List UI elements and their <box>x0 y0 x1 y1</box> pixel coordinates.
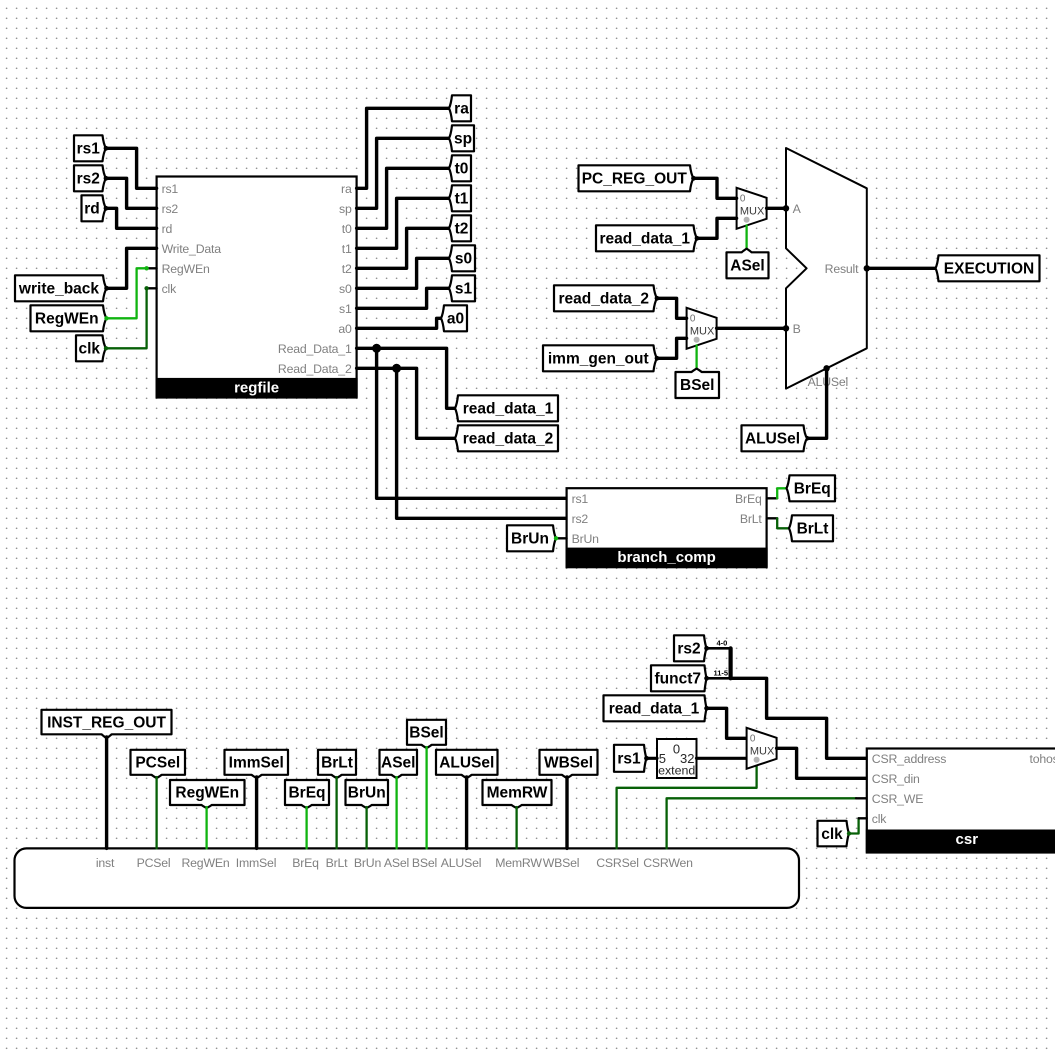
svg-text:WBSel: WBSel <box>543 856 580 870</box>
tunnel rs1 bottom <box>614 745 647 772</box>
tunnel BrEq <box>787 475 836 501</box>
node read_data_2 top tip <box>655 296 660 301</box>
svg-text:read_data_1: read_data_1 <box>609 701 700 718</box>
regfile pin label clk <box>162 282 177 296</box>
svg-text:BSel: BSel <box>409 725 443 742</box>
tunnel ASel <box>727 249 769 279</box>
regfile pin label rd <box>162 222 173 236</box>
svg-text:Read_Data_1: Read_Data_1 <box>278 342 352 356</box>
wire BSel pin <box>425 747 427 848</box>
node read_data_1 bottom tip <box>704 706 709 711</box>
node clk csr tip <box>847 831 851 835</box>
node RegWEn elbow <box>144 266 148 270</box>
svg-text:imm_gen_out: imm_gen_out <box>548 351 649 368</box>
svg-text:RegWEn: RegWEn <box>175 785 239 802</box>
regfile pin label rs2 <box>162 202 179 216</box>
branch_comp pin label BrLt <box>740 512 763 526</box>
svg-text:tohost: tohost <box>1029 752 1055 766</box>
tunnel BrUn bottom <box>346 780 389 808</box>
control pin label CSRWen <box>643 856 693 870</box>
wire s1 <box>357 288 449 308</box>
svg-text:a0: a0 <box>447 311 464 328</box>
svg-text:s1: s1 <box>455 281 473 298</box>
svg-text:s0: s0 <box>455 251 472 268</box>
svg-text:clk: clk <box>821 826 843 843</box>
tunnel ImmSel <box>225 750 289 778</box>
regfile pin label ra <box>341 182 352 196</box>
wire t2 <box>357 228 449 268</box>
node ALU B port <box>783 325 789 331</box>
wire mux3 out to CSR_din <box>777 748 867 778</box>
tunnel write_back <box>15 275 107 301</box>
control pin label MemRW <box>495 856 542 870</box>
tunnel funct7 <box>651 665 707 691</box>
node funct7 tip <box>704 676 709 681</box>
branch_comp pin label rs2 <box>572 512 589 526</box>
svg-text:csr: csr <box>956 831 979 848</box>
control pin label BrLt <box>326 856 349 870</box>
regfile pin label Read_Data_2 <box>278 362 352 376</box>
wire funct7 leg <box>707 677 731 680</box>
tunnel BrEq bottom <box>285 780 329 808</box>
svg-text:INST_REG_OUT: INST_REG_OUT <box>47 714 166 731</box>
svg-text:ALUSel: ALUSel <box>745 431 800 448</box>
svg-text:0: 0 <box>673 742 680 757</box>
regfile pin label t0 <box>342 222 352 236</box>
tunnel BrLt <box>789 515 833 541</box>
svg-text:t1: t1 <box>342 242 352 256</box>
wire a0 <box>357 318 441 328</box>
svg-text:branch_comp: branch_comp <box>617 549 715 566</box>
wire MemRW pin <box>515 807 517 848</box>
svg-text:CSR_din: CSR_din <box>872 772 920 786</box>
wire Read_Data_1 to branch_comp rs1 <box>377 348 567 498</box>
tunnel PCSel <box>131 750 186 778</box>
control pin label ImmSel <box>236 856 276 870</box>
regfile pin label s0 <box>339 282 352 296</box>
svg-text:BrEq: BrEq <box>735 492 762 506</box>
csr pin label clk <box>872 812 887 826</box>
node clk tip <box>104 346 108 350</box>
svg-text:t0: t0 <box>342 222 352 236</box>
svg-text:rs2: rs2 <box>572 512 589 526</box>
svg-text:CSRSel: CSRSel <box>596 856 639 870</box>
svg-text:a0: a0 <box>338 322 352 336</box>
tunnel read_data_1 mid <box>455 395 558 421</box>
wire BrLt dark green <box>777 518 789 528</box>
splitter S1 label 11-5 <box>714 669 729 678</box>
svg-text:rs1: rs1 <box>617 751 641 768</box>
svg-text:PCSel: PCSel <box>137 856 171 870</box>
wire BSel select <box>695 345 697 369</box>
tunnel RegWEn left <box>31 305 107 331</box>
tunnel s0 <box>449 245 475 271</box>
wire PC_REG_OUT to mux1 <box>694 178 737 198</box>
wire rs1 to regfile <box>106 148 157 188</box>
control pin label BrUn <box>354 856 382 870</box>
wire clk port stub <box>147 287 157 289</box>
tunnel s1 <box>449 275 475 301</box>
node imm_gen_out tip <box>655 356 660 361</box>
svg-text:ASel: ASel <box>730 258 764 275</box>
svg-text:BrEq: BrEq <box>288 785 325 802</box>
wire s0 <box>357 258 449 288</box>
node ALU A port <box>783 205 789 211</box>
regfile pin label sp <box>339 202 352 216</box>
svg-text:t1: t1 <box>455 191 469 208</box>
ALU label A <box>793 202 802 216</box>
wire write_back to Write_Data <box>107 248 157 288</box>
wire Read_Data_2 to branch_comp rs2 <box>397 368 567 518</box>
tunnel rs2 <box>74 165 106 191</box>
wire clk csr green <box>849 818 859 833</box>
svg-text:4-0: 4-0 <box>717 639 728 648</box>
svg-text:rs1: rs1 <box>162 182 179 196</box>
wire BrEq stub <box>767 497 778 499</box>
wire mux2 out to ALU B <box>717 327 786 330</box>
mux BSel MUX2 <box>687 308 717 349</box>
svg-text:ASel: ASel <box>384 856 409 870</box>
wire ASel pin <box>395 777 397 848</box>
wire t1 <box>357 198 449 248</box>
wire read_data_1 to mux3 <box>707 708 747 738</box>
svg-text:CSR_address: CSR_address <box>872 752 946 766</box>
svg-text:PCSel: PCSel <box>135 755 180 772</box>
svg-text:clk: clk <box>78 341 100 358</box>
regfile pin label t1 <box>342 242 352 256</box>
tunnel BrUn <box>507 525 556 551</box>
wire RegWEn pin <box>205 807 207 848</box>
tunnel RegWEn bottom <box>170 780 245 808</box>
node rs1 tip <box>104 146 109 151</box>
tunnel BrLt bottom <box>318 750 356 778</box>
tunnel ASel bottom <box>380 750 418 778</box>
tunnel rd <box>82 195 107 221</box>
tunnel t2 <box>449 215 471 241</box>
node PC_REG_OUT tip <box>691 176 696 181</box>
svg-text:BrLt: BrLt <box>326 856 349 870</box>
svg-text:BrUn: BrUn <box>348 785 386 802</box>
svg-text:Result: Result <box>825 262 859 276</box>
svg-text:RegWEn: RegWEn <box>162 262 210 276</box>
svg-text:0: 0 <box>750 734 756 745</box>
tunnel read_data_2 top <box>554 285 657 311</box>
wire BrLt stub <box>767 517 778 519</box>
tunnel rs1 <box>74 135 106 161</box>
wire mux1 out to ALU A <box>767 207 786 210</box>
svg-text:ra: ra <box>341 182 352 196</box>
svg-text:BSel: BSel <box>680 377 714 394</box>
svg-text:regfile: regfile <box>234 380 279 397</box>
svg-text:t2: t2 <box>342 262 352 276</box>
wire rs1 to extend <box>647 757 658 760</box>
svg-text:BrLt: BrLt <box>740 512 763 526</box>
wire inst pin <box>105 737 108 848</box>
tunnel read_data_2 mid <box>455 425 558 451</box>
control pin label CSRSel <box>596 856 639 870</box>
wire BrEq pin <box>305 807 307 848</box>
wire CSRSel pin <box>617 765 757 848</box>
splitter S1 spine <box>728 648 732 678</box>
wire CSR_address <box>731 678 867 758</box>
wire read_data_1 to mux1 <box>697 218 737 238</box>
tunnel ra <box>449 95 471 121</box>
node ALUSel port <box>823 365 829 371</box>
regfile pin label t2 <box>342 262 352 276</box>
regfile pin label Read_Data_1 <box>278 342 352 356</box>
svg-text:clk: clk <box>872 812 887 826</box>
wire ra <box>357 108 449 188</box>
wire rs2 leg <box>707 647 731 650</box>
svg-text:rs1: rs1 <box>77 141 101 158</box>
wire BrEq green <box>777 488 786 498</box>
control logic block <box>15 848 800 908</box>
svg-text:MemRW: MemRW <box>487 785 548 802</box>
branch_comp U2 body <box>566 488 768 567</box>
svg-text:ALUSel: ALUSel <box>441 856 482 870</box>
control pin label ASel <box>384 856 409 870</box>
node RegWEn tip <box>104 316 108 320</box>
wire WBSel pin <box>565 777 568 848</box>
csr pin label CSR_WE <box>872 792 923 806</box>
svg-text:s1: s1 <box>339 302 352 316</box>
wire CSRWen pin <box>667 798 856 848</box>
regfile pin label rs1 <box>162 182 179 196</box>
svg-text:CSRWen: CSRWen <box>643 856 693 870</box>
regfile pin label a0 <box>338 322 352 336</box>
svg-text:BrEq: BrEq <box>292 856 319 870</box>
svg-text:extend: extend <box>658 763 695 777</box>
wire CSR_WE stub <box>856 797 867 799</box>
svg-text:0: 0 <box>690 314 696 325</box>
control pin label PCSel <box>137 856 171 870</box>
tunnel read_data_1 bottom <box>604 695 707 721</box>
wire PCSel pin <box>155 777 157 848</box>
svg-text:ImmSel: ImmSel <box>236 856 276 870</box>
tunnel clk bottom <box>818 821 850 847</box>
tunnel INST_REG_OUT <box>42 710 172 739</box>
svg-text:Read_Data_2: Read_Data_2 <box>278 362 352 376</box>
tunnel read_data_1 top <box>596 225 697 251</box>
tunnel WBSel <box>540 750 598 778</box>
node rd tip <box>104 206 109 211</box>
tunnel EXECUTION <box>936 255 1040 281</box>
wire Read_Data_1 out <box>357 348 455 408</box>
node read_data_1 top tip <box>695 236 700 241</box>
svg-text:Write_Data: Write_Data <box>162 242 222 256</box>
tunnel BSel <box>676 369 720 398</box>
mux CSRSel MUX3 <box>747 728 777 769</box>
node rs2 tip <box>704 646 709 651</box>
tunnel t0 <box>449 155 471 181</box>
svg-text:MUX: MUX <box>740 206 765 218</box>
csr pin label CSR_address <box>872 752 946 766</box>
svg-text:ra: ra <box>454 101 469 118</box>
svg-text:MUX: MUX <box>690 326 715 338</box>
extend block U4 <box>657 739 697 778</box>
svg-text:BrUn: BrUn <box>511 531 549 548</box>
junction Read_Data_2 <box>392 364 401 373</box>
ALU label B <box>793 322 801 336</box>
wire BrUn stub <box>556 537 566 539</box>
tunnel rs2 bottom <box>674 635 707 661</box>
svg-text:EXECUTION: EXECUTION <box>944 261 1034 278</box>
wire ImmSel pin <box>255 777 258 848</box>
svg-text:rs2: rs2 <box>677 641 700 658</box>
svg-text:ALUSel: ALUSel <box>439 755 494 772</box>
wire ALUSel pin <box>465 777 468 848</box>
node rs1 bottom tip <box>644 756 649 761</box>
svg-text:inst: inst <box>96 856 115 870</box>
svg-text:rs1: rs1 <box>572 492 589 506</box>
control pin label BrEq <box>292 856 319 870</box>
tunnel PC_REG_OUT <box>579 165 694 191</box>
wire ALUSel to ALU <box>807 368 827 438</box>
tunnel ALUSel mid <box>742 425 808 451</box>
junction Read_Data_1 <box>372 344 381 353</box>
svg-text:BrLt: BrLt <box>797 521 829 538</box>
svg-text:BrUn: BrUn <box>354 856 382 870</box>
svg-text:rs2: rs2 <box>77 171 100 188</box>
control pin label ALUSel <box>441 856 482 870</box>
csr pin label tohost <box>1029 752 1055 766</box>
tunnel a0 <box>441 305 467 331</box>
wire Read_Data_2 out <box>357 368 455 438</box>
svg-text:read_data_1: read_data_1 <box>463 401 554 418</box>
node rs2 tip <box>104 176 109 181</box>
svg-text:t2: t2 <box>455 221 469 238</box>
wire rs2 to regfile <box>106 178 157 208</box>
svg-text:t0: t0 <box>455 161 469 178</box>
branch_comp pin label BrUn <box>572 532 600 546</box>
svg-text:PC_REG_OUT: PC_REG_OUT <box>582 171 688 188</box>
svg-text:11-5: 11-5 <box>714 669 729 678</box>
tunnel ALUSel bottom <box>436 750 498 778</box>
wire RegWEn green <box>107 268 147 318</box>
svg-text:RegWEn: RegWEn <box>181 856 229 870</box>
svg-text:0: 0 <box>740 194 746 205</box>
csr pin label CSR_din <box>872 772 920 786</box>
csr U3 body <box>866 749 1055 853</box>
mux ASel MUX1 <box>737 188 767 229</box>
svg-text:BrEq: BrEq <box>794 481 831 498</box>
svg-text:WBSel: WBSel <box>544 755 593 772</box>
svg-text:BrLt: BrLt <box>321 755 353 772</box>
op-amp ALU EXECUTION shape <box>786 148 867 389</box>
svg-text:ImmSel: ImmSel <box>229 755 284 772</box>
node write_back tip <box>104 286 109 291</box>
svg-text:BSel: BSel <box>412 856 437 870</box>
wire sp <box>357 138 449 208</box>
wire extend to mux3 <box>697 757 747 760</box>
svg-text:s0: s0 <box>339 282 352 296</box>
svg-text:read_data_2: read_data_2 <box>463 431 553 448</box>
svg-text:rd: rd <box>84 201 100 218</box>
svg-text:funct7: funct7 <box>655 671 702 688</box>
control pin label WBSel <box>543 856 580 870</box>
control pin label inst <box>96 856 115 870</box>
branch_comp pin label BrEq <box>735 492 762 506</box>
svg-text:rs2: rs2 <box>162 202 179 216</box>
svg-text:clk: clk <box>162 282 177 296</box>
svg-text:sp: sp <box>454 131 472 148</box>
svg-text:CSR_WE: CSR_WE <box>872 792 923 806</box>
wire t0 <box>357 168 449 228</box>
branch_comp pin label rs1 <box>572 492 589 506</box>
ALU label Result <box>825 262 859 276</box>
tunnel clk left <box>76 335 106 361</box>
regfile pin label s1 <box>339 302 352 316</box>
tunnel BSel bottom <box>407 720 446 748</box>
wire BrLt pin <box>335 777 337 848</box>
wire imm_gen_out to mux2 <box>657 338 687 358</box>
splitter S1 label 4-0 <box>717 639 728 648</box>
node clk elbow <box>144 286 148 290</box>
svg-text:sp: sp <box>339 202 352 216</box>
svg-text:RegWEn: RegWEn <box>35 311 99 328</box>
control pin label RegWEn <box>181 856 229 870</box>
wire clk dark green <box>106 288 147 348</box>
wire read_data_2 to mux2 <box>657 298 687 318</box>
svg-text:ASel: ASel <box>381 755 415 772</box>
svg-text:A: A <box>793 202 802 216</box>
tunnel sp <box>449 125 474 151</box>
svg-text:read_data_1: read_data_1 <box>600 231 691 248</box>
svg-text:rd: rd <box>162 222 173 236</box>
svg-text:MemRW: MemRW <box>495 856 542 870</box>
node BrUn tip <box>554 536 558 540</box>
wire clk csr stub <box>859 817 867 819</box>
regfile pin label RegWEn <box>162 262 210 276</box>
tunnel t1 <box>449 185 471 211</box>
wire rd to regfile <box>106 208 157 228</box>
svg-text:MUX: MUX <box>750 746 775 758</box>
node ALUSel tip <box>805 436 810 441</box>
svg-text:BrUn: BrUn <box>572 532 600 546</box>
tunnel MemRW <box>483 780 552 808</box>
control pin label BSel <box>412 856 437 870</box>
regfile U1 body <box>156 177 358 398</box>
node Result port <box>864 265 870 271</box>
svg-text:B: B <box>793 322 801 336</box>
ALU label ALUSel <box>808 375 849 389</box>
svg-text:read_data_2: read_data_2 <box>559 291 649 308</box>
wire BrUn pin <box>365 807 367 848</box>
wire ASel select <box>745 225 747 249</box>
wire RegWEn port stub <box>147 267 157 269</box>
tunnel imm_gen_out <box>543 345 657 371</box>
wire Result to EXECUTION <box>867 267 936 270</box>
regfile pin label Write_Data <box>162 242 222 256</box>
svg-text:write_back: write_back <box>18 281 100 298</box>
